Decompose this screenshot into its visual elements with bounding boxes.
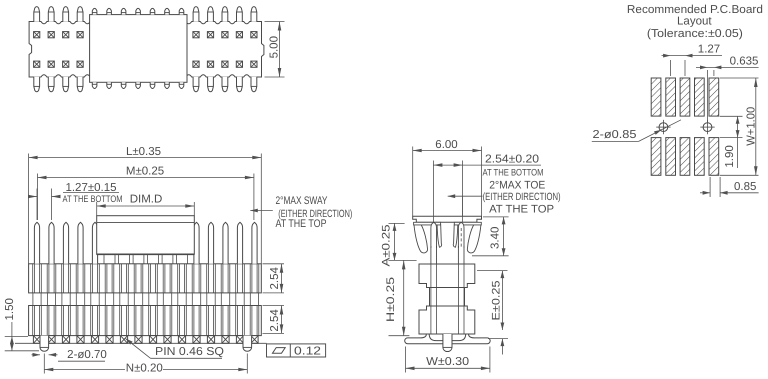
contact pad square (top view) (236, 61, 242, 67)
pin in gap between bodies (front view) (104, 293, 106, 306)
pin through-lines in bodies (front view) (164, 264, 166, 293)
svg-text:AT THE TOP: AT THE TOP (276, 218, 327, 230)
svg-text:Recommended P.C.Board: Recommended P.C.Board (627, 4, 763, 16)
pin through-lines in bodies (front view) (149, 264, 151, 293)
pin tip below tape (top view, lower) (150, 82, 155, 88)
svg-text:W±0.30: W±0.30 (426, 356, 469, 368)
contact pad square (top view) (193, 61, 199, 67)
pin tip above tape (top view, upper) (92, 8, 97, 14)
top view: connector body (plan) (29, 22, 264, 78)
svg-text:A±0.25: A±0.25 (380, 225, 392, 267)
svg-text:0.85: 0.85 (734, 181, 756, 193)
dimension 6.00 (tape width) (413, 150, 482, 152)
pin in gap between bodies (front view) (75, 293, 77, 306)
dimension 1.50 (left) (5, 335, 28, 337)
pin (top view, lower row) (222, 77, 228, 92)
contact pad square (top view) (207, 32, 213, 38)
svg-text:M±0.25: M±0.25 (126, 166, 164, 178)
pin top (front view) (49, 222, 54, 263)
PCB pad (bottom row) (680, 138, 690, 176)
solder pad (front view) (120, 336, 127, 344)
PCB pad (bottom row) (651, 138, 661, 176)
pin tip above tape (top view, upper) (121, 8, 126, 14)
svg-text:(Tolerance:±0.05): (Tolerance:±0.05) (647, 28, 743, 40)
pin (top view, lower row) (251, 77, 257, 92)
dimension N±0.20 (43, 354, 45, 374)
dimension DIM.D (97, 205, 195, 207)
seating plane line (15, 342, 267, 344)
pin (top view, lower row) (208, 77, 214, 92)
pin tip below tape (top view, lower) (136, 82, 141, 88)
pin in gap between bodies (front view) (61, 293, 63, 306)
pin through-lines in bodies (front view) (106, 264, 108, 293)
pin (top view, upper row) (77, 7, 83, 22)
pin tip above tape (top view, upper) (165, 8, 170, 14)
dimension 3.40 (483, 216, 509, 218)
svg-text:2-ø0.85: 2-ø0.85 (593, 129, 637, 141)
pin (top view, upper row) (63, 7, 69, 22)
upper insulator body (front view) (29, 264, 262, 293)
PCB pad (top row) (666, 78, 676, 116)
svg-text:H±0.25: H±0.25 (385, 277, 397, 322)
flatness callout 0.12 (267, 344, 326, 357)
mounting hole (659, 123, 668, 132)
pin through-lines in bodies (front view) (62, 264, 64, 293)
kapton tape (front view) (97, 216, 195, 255)
pin top (front view) (223, 222, 228, 263)
pin tip below tape (top view, lower) (165, 82, 170, 88)
dimension W±0.30 (405, 347, 407, 373)
svg-text:1.50: 1.50 (4, 298, 16, 320)
solder pad (front view) (106, 336, 113, 344)
svg-text:L±0.35: L±0.35 (126, 146, 161, 158)
pin shank (side view) (430, 246, 432, 334)
svg-text:W+1.00: W+1.00 (746, 107, 758, 146)
pin below tape (front view) (176, 254, 178, 263)
svg-text:2.54±0.20: 2.54±0.20 (485, 154, 539, 166)
pin (top view, upper row) (193, 7, 199, 22)
tape (side view) (413, 216, 482, 222)
solder pad (front view) (251, 336, 258, 344)
pin (top view, upper row) (48, 7, 54, 22)
dimension 2-ø0.70 (posts) (32, 354, 41, 356)
svg-text:DIM.D: DIM.D (130, 193, 163, 205)
pin (top view, lower row) (237, 77, 243, 92)
pin (top view, lower row) (34, 77, 40, 92)
mounting hole (703, 123, 712, 132)
PCB pad (top row) (695, 78, 705, 116)
dimension L±0.35 (29, 157, 262, 159)
contact pad square (top view) (193, 32, 199, 38)
lower insulator body (front view) (29, 306, 262, 336)
pin (top view, lower row) (48, 77, 54, 92)
small arrow under E dim (488, 338, 508, 340)
svg-text:Layout: Layout (677, 16, 712, 28)
pin (top view, upper row) (237, 7, 243, 22)
contact pad square (top view) (63, 61, 69, 67)
pin in gap between bodies (front view) (162, 293, 164, 306)
center post (side view) (443, 334, 452, 352)
contact pad square (top view) (236, 32, 242, 38)
pin through-lines in bodies (front view) (48, 264, 50, 293)
solder pad (front view) (222, 336, 229, 344)
svg-text:5.00: 5.00 (268, 36, 280, 58)
pin below tape (front view) (103, 254, 105, 263)
pin in gap between bodies (front view) (177, 293, 179, 306)
pin (top view, upper row) (208, 7, 214, 22)
svg-text:2.54: 2.54 (269, 309, 281, 332)
contact pad square (top view) (48, 32, 54, 38)
svg-text:1.27±0.15: 1.27±0.15 (65, 182, 116, 194)
pin tip above tape (top view, upper) (150, 8, 155, 14)
pin top (front view) (208, 222, 213, 263)
svg-text:2-ø0.70: 2-ø0.70 (67, 349, 107, 361)
solder pad (front view) (33, 336, 40, 344)
pin through-lines in bodies (front view) (236, 264, 238, 293)
pin (top view, upper row) (222, 7, 228, 22)
pin through-lines in bodies (front view) (91, 264, 93, 293)
pin top (front view) (34, 222, 39, 263)
pin tip below tape (top view, lower) (179, 82, 184, 88)
dimension 1.27 (pad pitch) (670, 60, 672, 76)
retention claw assembly pin 1 (side view) (414, 222, 442, 253)
svg-text:0.12: 0.12 (294, 345, 321, 357)
svg-text:AT THE BOTTOM: AT THE BOTTOM (63, 194, 123, 205)
dimension 0.635 (707, 70, 709, 122)
pin in gap between bodies (front view) (206, 293, 208, 306)
pin top (front view) (194, 222, 199, 263)
pin in gap between bodies (front view) (235, 293, 237, 306)
pin through-lines in bodies (front view) (120, 264, 122, 293)
contact pad square (top view) (77, 32, 83, 38)
PCB pad (top row) (680, 78, 690, 116)
dimension H±0.25 (389, 335, 410, 337)
pin tip below tape (top view, lower) (121, 82, 126, 88)
PCB pad (bottom row) (709, 138, 719, 176)
solder pad (front view) (62, 336, 69, 344)
pin through-lines in bodies (front view) (33, 264, 35, 293)
dimension 2.54 upper body height (263, 263, 285, 265)
contact pad square (top view) (222, 32, 228, 38)
solder pad (front view) (178, 336, 185, 344)
pin (top view, lower row) (63, 77, 69, 92)
pin tip below tape (top view, lower) (92, 82, 97, 88)
dimension 2.54±0.20 AT THE BOTTOM (432, 161, 434, 217)
dimension 5.00 (body width, top view) (265, 21, 285, 23)
pin tip below tape (top view, lower) (107, 82, 112, 88)
pin top (front view) (92, 222, 97, 263)
SMT foot left (side view) (405, 334, 443, 344)
dimension W+1.00 (720, 77, 759, 79)
pin below tape (front view) (118, 254, 120, 263)
pin top (front view) (252, 222, 257, 263)
pin (top view, upper row) (34, 7, 40, 22)
pin through-lines in bodies (front view) (193, 264, 195, 293)
upper insulator (side view) (419, 264, 475, 288)
contact pad square (top view) (251, 61, 257, 67)
svg-text:N±0.20: N±0.20 (126, 363, 163, 375)
dimension 2.54 lower body height (263, 305, 285, 307)
pin through-lines in bodies (front view) (178, 264, 180, 293)
pin through-lines in bodies (front view) (135, 264, 137, 293)
pin through-lines in bodies (front view) (222, 264, 224, 293)
solder pad (front view) (149, 336, 156, 344)
dimension 1.90 (720, 115, 743, 117)
solder pad (front view) (236, 336, 243, 344)
center bridge (side view) (430, 288, 465, 307)
pin shank (side view) (457, 246, 459, 334)
contact pad square (top view) (77, 61, 83, 67)
svg-text:3.40: 3.40 (489, 227, 501, 249)
contact pad square (top view) (222, 61, 228, 67)
pin below tape (front view) (161, 254, 163, 263)
pin (top view, upper row) (251, 7, 257, 22)
svg-text:2°MAX SWAY: 2°MAX SWAY (276, 195, 329, 207)
locating post (front view) (40, 336, 49, 352)
svg-text:1.90: 1.90 (724, 145, 736, 167)
pin below tape (front view) (132, 254, 134, 263)
PCB pad (bottom row) (695, 138, 705, 176)
solder pad (front view) (91, 336, 98, 344)
svg-text:0.635: 0.635 (730, 56, 759, 68)
dimension 0.85 (709, 177, 711, 197)
retention claw assembly pin 2 (side view, mirrored) (453, 222, 481, 253)
contact pad square (top view) (251, 32, 257, 38)
pin in gap between bodies (front view) (133, 293, 135, 306)
lower insulator (side view) (419, 306, 475, 334)
pin through-lines in bodies (front view) (251, 264, 253, 293)
SMT foot right (side view) (452, 334, 490, 344)
contact pad square (top view) (34, 61, 40, 67)
pin in gap between bodies (front view) (46, 293, 48, 306)
contact pad square (top view) (63, 32, 69, 38)
pin through-lines in bodies (front view) (77, 264, 79, 293)
svg-text:E±0.25: E±0.25 (491, 281, 503, 321)
PCB pad (bottom row) (666, 138, 676, 176)
pin in gap between bodies (front view) (191, 293, 193, 306)
pin in gap between bodies (front view) (119, 293, 121, 306)
svg-text:AT THE TOP: AT THE TOP (489, 203, 554, 215)
pin tip above tape (top view, upper) (107, 8, 112, 14)
solder pad (front view) (48, 336, 55, 344)
solder pad (front view) (135, 336, 142, 344)
pin in gap between bodies (front view) (220, 293, 222, 306)
pin top (front view) (237, 222, 242, 263)
dimension M±0.25 (38, 177, 254, 179)
svg-text:2°MAX TOE: 2°MAX TOE (489, 180, 545, 192)
contact pad square (top view) (207, 61, 213, 67)
dimension E±0.25 (477, 270, 508, 272)
svg-text:(EITHER DIRECTION): (EITHER DIRECTION) (483, 191, 561, 203)
solder pad (front view) (77, 336, 84, 344)
svg-text:AT THE BOTTOM: AT THE BOTTOM (483, 167, 544, 178)
dimension 1.27±0.15 AT THE BOTTOM (36, 189, 38, 221)
locating post (front view) (243, 336, 252, 352)
pin tip above tape (top view, upper) (179, 8, 184, 14)
pin in gap between bodies (front view) (90, 293, 92, 306)
pin in gap between bodies (front view) (148, 293, 150, 306)
contact pad square (top view) (34, 32, 40, 38)
svg-text:1.27: 1.27 (698, 44, 720, 56)
dimension A±0.25 (389, 222, 405, 224)
solder pad (front view) (164, 336, 171, 344)
pin (top view, lower row) (193, 77, 199, 92)
svg-text:PIN 0.46 SQ: PIN 0.46 SQ (155, 346, 224, 358)
pin below tape (front view) (147, 254, 149, 263)
svg-text:6.00: 6.00 (435, 139, 457, 151)
PCB pad (top row) (651, 78, 661, 116)
PCB pad (top row) (709, 78, 719, 116)
pin (top view, lower row) (77, 77, 83, 92)
contact pad square (top view) (48, 61, 54, 67)
solder pad (front view) (193, 336, 200, 344)
kapton tape (top view) (90, 15, 187, 83)
pin through-lines in bodies (front view) (207, 264, 209, 293)
pin in gap between bodies (front view) (249, 293, 251, 306)
pin top (front view) (78, 222, 83, 263)
pin top (front view) (63, 222, 68, 263)
pin in gap between bodies (front view) (32, 293, 34, 306)
solder pad (front view) (207, 336, 214, 344)
pin tip above tape (top view, upper) (136, 8, 141, 14)
svg-text:2.54: 2.54 (269, 267, 281, 290)
